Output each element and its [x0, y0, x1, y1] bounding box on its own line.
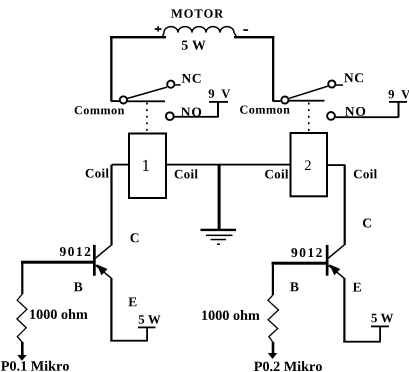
wire 9V stem 2 — [398, 102, 400, 118]
terminal arrow P0.2 — [268, 342, 277, 359]
terminal bar 9V left — [209, 101, 228, 103]
label E of Q1 — [128, 298, 136, 307]
label NO right — [345, 107, 365, 116]
label 9 V left — [209, 89, 231, 98]
wire motor right down to common 2 — [272, 36, 274, 102]
label 5 W motor rating — [182, 41, 206, 50]
label + polarity — [155, 26, 162, 31]
wire coil stub left relay 1 — [112, 164, 129, 166]
wire 5W stem right — [379, 327, 381, 342]
dotted actuator link relay 1 — [146, 103, 148, 134]
wire NC stub 1 — [175, 84, 181, 86]
label B of Q2 — [290, 282, 298, 291]
wire relay1 coil to Q1 collector — [110, 165, 112, 246]
label 5 W bottom right — [372, 314, 394, 323]
relay 1 NC contact — [167, 81, 174, 88]
relay 1 common contact — [120, 96, 127, 103]
label 5 W bottom left — [139, 315, 161, 324]
label C of Q2 — [363, 219, 371, 228]
wire stub to common contact 1 — [111, 100, 120, 102]
label 1 — [143, 160, 149, 171]
label NC left — [182, 74, 201, 83]
label Common right — [240, 106, 290, 114]
wire Q2 emitter bottom — [343, 341, 381, 343]
terminal arrow P0.1 — [17, 342, 26, 361]
wire Q2 emitter down — [343, 278, 345, 343]
dotted actuator link relay 2 — [308, 103, 310, 133]
label 2 — [305, 160, 311, 170]
label P0.2 Mikro — [254, 361, 322, 371]
label - polarity — [243, 29, 248, 31]
label B of Q1 — [74, 282, 82, 291]
label C of Q1 — [131, 233, 139, 242]
wire Q1 emitter down — [110, 278, 112, 342]
relay 2 NO contact — [327, 112, 335, 120]
relay 1 NO contact — [166, 112, 174, 120]
transistor Q1 — [93, 245, 112, 279]
relay 2 NC contact — [328, 80, 335, 87]
label Coil right of relay 1 — [175, 169, 198, 178]
wire Q1 emitter bottom — [110, 340, 148, 342]
label 9012 of Q2 — [291, 248, 321, 257]
ground — [201, 229, 237, 245]
label MOTOR — [171, 9, 223, 17]
resistor R2 1000 ohm — [268, 263, 279, 342]
wire Q1 base — [21, 261, 93, 264]
terminal bar 9V right — [389, 101, 407, 103]
wire motor right lead — [234, 36, 274, 38]
label P0.1 Mikro — [1, 361, 69, 371]
label Coil left of relay 2 — [265, 169, 288, 178]
inductor MOTOR winding — [163, 27, 237, 37]
wire coil rail relay1 to relay2 — [166, 164, 291, 166]
label E of Q2 — [353, 283, 361, 292]
label Common left — [75, 106, 125, 114]
relay 1 switch arm — [127, 87, 167, 98]
wire 9V stem 1 — [217, 102, 219, 118]
wire coil stub right relay 2 — [327, 164, 345, 166]
wire NO to 9V terminal 1 — [174, 116, 218, 118]
transistor Q2 — [326, 245, 345, 279]
label 1000 ohm left — [30, 309, 87, 319]
resistor R1 1000 ohm — [17, 262, 27, 342]
terminal bar 5W left — [138, 327, 156, 329]
label 9 V right — [389, 90, 409, 99]
wire motor left lead — [110, 36, 166, 38]
relay 2 common contact — [281, 96, 288, 103]
wire stub to common contact 2 — [273, 100, 281, 102]
label NO left — [181, 108, 201, 117]
label 1000 ohm right — [202, 310, 259, 320]
relay 2 switch arm — [289, 86, 328, 98]
wire NO to 9V terminal 2 — [335, 116, 398, 118]
label Coil right of relay 2 — [354, 169, 377, 178]
relay box 2 — [291, 133, 328, 196]
wire common horizontal 1 — [127, 100, 165, 102]
wire ground drop — [218, 165, 221, 231]
wire Q2 base — [272, 262, 327, 265]
wire motor left down to common 1 — [110, 36, 112, 102]
wire relay2 coil to Q2 collector — [344, 165, 346, 245]
label NC right — [344, 73, 363, 82]
relay box 1 — [129, 134, 166, 199]
label Coil left of relay 1 — [86, 169, 109, 178]
terminal bar 5W right — [371, 326, 389, 328]
label 9012 of Q1 — [60, 247, 90, 256]
wire NC stub 2 — [336, 84, 343, 86]
wire common horizontal 2 — [289, 100, 325, 102]
wire 5W stem left — [146, 328, 148, 342]
